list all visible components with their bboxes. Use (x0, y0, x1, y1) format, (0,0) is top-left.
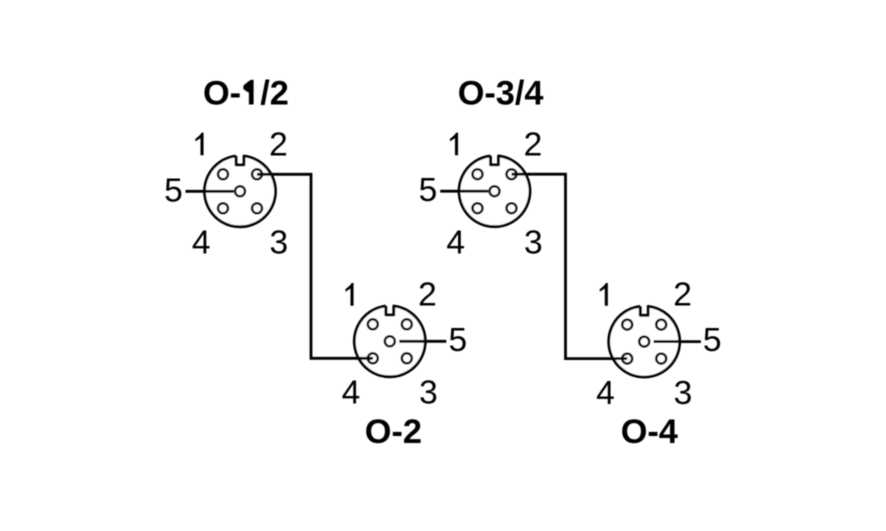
connector O-1/2 pin 5 (center) (235, 186, 245, 196)
connector O-2 pin 1 (upper left) (368, 319, 378, 329)
connector O-1/2 pin 4 (lower left) (218, 203, 228, 213)
svg-text:4: 4 (192, 225, 211, 262)
connector O-3/4 pin 3 (lower right) (507, 203, 517, 213)
svg-text:5: 5 (448, 322, 467, 359)
connector O-3/4 pin 5 lead line (440, 190, 488, 193)
connector O-2 body (M12 socket outline with top keyway) (354, 306, 425, 377)
svg-text:O-: O- (203, 75, 241, 113)
svg-text:2: 2 (418, 277, 437, 314)
connector O-4 pin 5 lead line (654, 340, 701, 343)
connector O-3/4 body (M12 socket outline with top keyway) (459, 156, 530, 227)
svg-text:5: 5 (164, 172, 183, 209)
svg-text:2: 2 (673, 277, 692, 314)
connector O-3/4 pin 1 number label (450, 133, 458, 156)
connector O-4 pin 1 number label (600, 283, 608, 306)
connector O-4 pin 5 (center) (639, 337, 649, 347)
connector O-4 pin 2 (upper right) (656, 320, 666, 330)
connector O-1/2 pin 1 (upper left) (218, 169, 228, 179)
connector O-3/4 pin 4 (lower left) (473, 203, 483, 213)
svg-text:4: 4 (342, 375, 361, 412)
connector O-1/2 body (M12 socket outline with top keyway) (205, 156, 276, 227)
connector O-3/4 pin 2 (upper right) (507, 169, 517, 179)
connector O-2 pin 3 (lower right) (402, 353, 412, 363)
svg-text:3: 3 (419, 375, 438, 412)
connector O-3/4 pin 1 (upper left) (473, 169, 483, 179)
svg-text:2: 2 (524, 126, 543, 163)
connector O-4 pin 3 (lower right) (656, 354, 666, 364)
svg-text:5: 5 (419, 172, 438, 209)
svg-text:5: 5 (703, 322, 722, 359)
connector O-4 pin 4 (lower left) (622, 354, 632, 364)
svg-text:4: 4 (446, 224, 465, 261)
connector O-2 pin 2 (upper right) (402, 319, 412, 329)
connector O-3/4 pin 5 (center) (490, 186, 500, 196)
svg-text:O-2: O-2 (365, 413, 422, 451)
connector O-2 pin 5 lead line (399, 340, 446, 343)
wire from O-1/2 pin 2 to O-2 pin 4 (257, 174, 373, 358)
connector O-1/2 pin 1 number label (195, 133, 203, 156)
connector O-2 pin 1 number label (345, 283, 353, 306)
svg-text:3: 3 (524, 225, 543, 262)
connector O-2 pin 5 (center) (385, 336, 395, 346)
connector O-4 pin 1 (upper left) (622, 320, 632, 330)
connector O-1/2 pin 5 lead line (186, 190, 234, 193)
svg-text:2: 2 (269, 127, 288, 164)
svg-text:4: 4 (596, 375, 615, 412)
connector O-2 pin 4 (lower left) (368, 353, 378, 363)
svg-text:3: 3 (269, 225, 288, 262)
svg-text:/2: /2 (260, 75, 289, 113)
svg-text:3: 3 (674, 375, 693, 412)
connector O-1/2 pin 3 (lower right) (252, 203, 262, 213)
wire from O-3/4 pin 2 to O-4 pin 4 (512, 174, 628, 358)
svg-text:O-4: O-4 (621, 413, 678, 451)
svg-text:O-3/4: O-3/4 (458, 75, 544, 113)
connector O-4 body (M12 socket outline with top keyway) (609, 306, 680, 377)
connector O-1/2 pin 2 (upper right) (252, 169, 262, 179)
